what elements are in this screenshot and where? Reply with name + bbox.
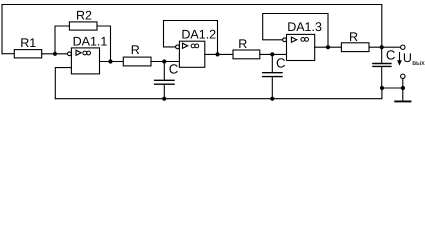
svg-text:DA1.1: DA1.1 bbox=[73, 34, 108, 48]
svg-text:DA1.3: DA1.3 bbox=[287, 20, 322, 34]
svg-text:R: R bbox=[238, 37, 247, 51]
svg-text:DA1.2: DA1.2 bbox=[181, 27, 216, 41]
svg-text:C: C bbox=[276, 56, 286, 71]
svg-text:R1: R1 bbox=[20, 36, 36, 50]
svg-text:C: C bbox=[386, 48, 396, 63]
svg-text:C: C bbox=[169, 62, 179, 77]
svg-text:R2: R2 bbox=[76, 8, 92, 22]
svg-text:вых: вых bbox=[412, 58, 425, 67]
svg-text:U: U bbox=[403, 51, 412, 65]
svg-text:R: R bbox=[349, 30, 358, 44]
svg-text:R: R bbox=[131, 43, 140, 57]
